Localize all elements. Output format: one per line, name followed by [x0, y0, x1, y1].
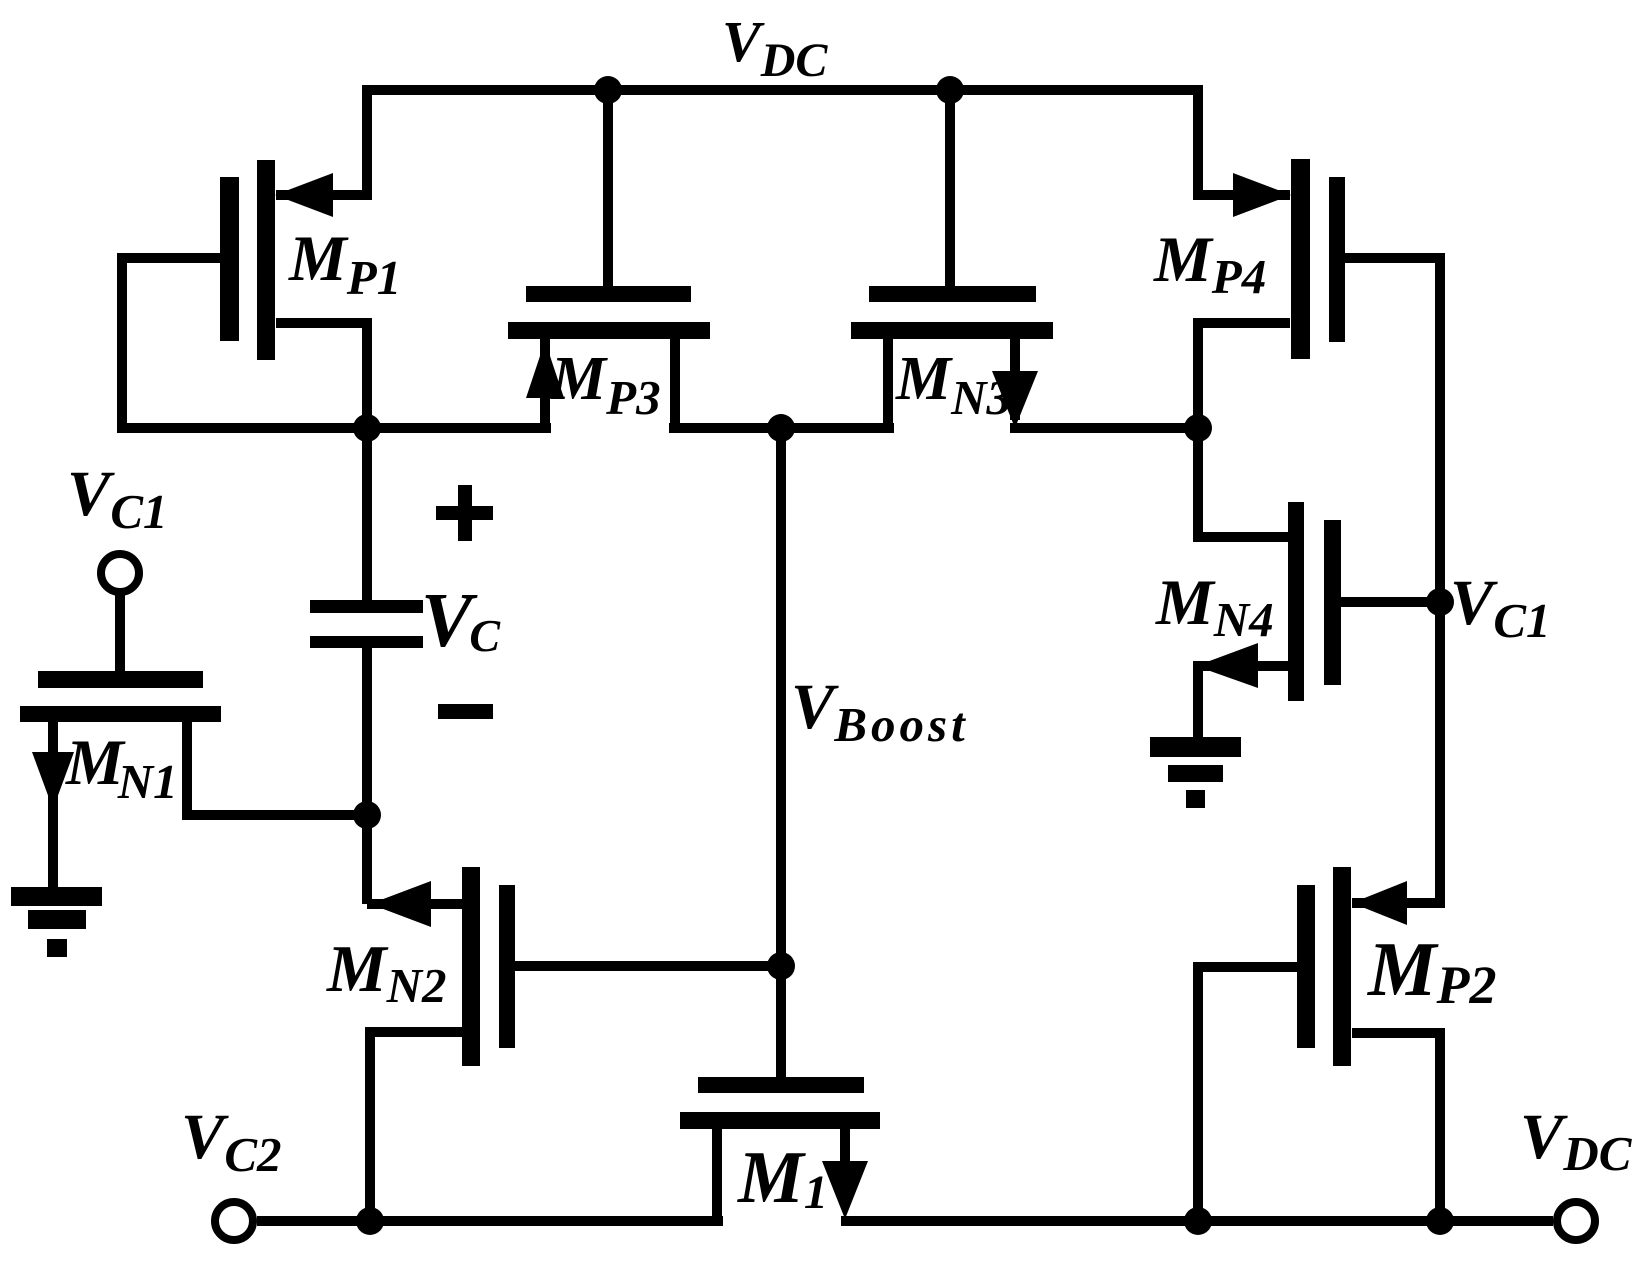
- node top rail / MN3 gate junction: [936, 76, 964, 104]
- wire mid bus right segment: [1010, 423, 1198, 433]
- node MP2 gate / rail junction: [1184, 1207, 1212, 1235]
- transistor M1 (NMOS, gate up): [680, 1077, 880, 1221]
- label MP3: [550, 345, 661, 425]
- ground (below MN4): [1150, 737, 1241, 808]
- transistor MN2 (NMOS): [367, 815, 781, 1221]
- label MN3: [895, 345, 1011, 425]
- terminal VDC (bottom right port): [1557, 1202, 1595, 1240]
- label MP2: [1366, 926, 1496, 1015]
- wire MP4 gate to MP2 source (VC1 net): [1435, 253, 1445, 908]
- node MP2 drain / rail junction: [1426, 1207, 1454, 1235]
- wire net VBoost: [776, 428, 786, 1077]
- transistor MN3 (NMOS, gate up): [851, 90, 1053, 428]
- transistor MP3 (PMOS, gate up): [508, 90, 710, 428]
- capacitor C top wire: [362, 428, 372, 600]
- wire bottom rail left segment: [257, 1216, 723, 1226]
- label MN1: [65, 727, 178, 809]
- transistor MN1 (NMOS, gate up): [20, 592, 367, 888]
- polarity minus sign: [438, 704, 493, 719]
- polarity plus sign: [436, 485, 493, 541]
- node top rail / MP3 gate junction: [594, 76, 622, 104]
- label M1: [737, 1137, 828, 1219]
- terminal VC2 (input port): [215, 1202, 253, 1240]
- transistor MP1 (PMOS): [122, 160, 370, 428]
- ground (below MN1): [11, 887, 102, 957]
- wire mid bus left segment: [117, 423, 551, 433]
- label VC1 (right): [1450, 567, 1551, 648]
- label MP4: [1153, 224, 1266, 304]
- node VBoost top junction: [767, 414, 795, 442]
- capacitor C bottom wire: [362, 648, 372, 815]
- wire bottom rail right segment: [841, 1216, 1553, 1226]
- label VC (capacitor voltage): [421, 577, 501, 663]
- node MP4 drain / MN4 drain junction: [1184, 414, 1212, 442]
- node MP1 drain / capacitor top junction: [353, 414, 381, 442]
- transistor MP2 (PMOS): [1198, 867, 1440, 1221]
- label MN4: [1155, 567, 1274, 647]
- label VDC (bottom right): [1520, 1101, 1633, 1181]
- label MP1: [288, 223, 401, 305]
- label net VDC (top): [722, 9, 828, 87]
- label VC2: [181, 1101, 282, 1182]
- transistor MN4 (NMOS, mirrored): [1196, 428, 1440, 739]
- transistor MP4 (PMOS, mirrored): [1195, 159, 1440, 428]
- label VC1 (left input): [67, 458, 168, 539]
- node VBoost / MN2 gate junction: [767, 952, 795, 980]
- terminal VC1 (input port): [101, 554, 139, 592]
- wire top VDC rail: [367, 90, 1198, 200]
- node capacitor bottom / MN1 drain junction: [353, 801, 381, 829]
- node VC1 / MN4 gate junction: [1426, 588, 1454, 616]
- capacitor C plates: [310, 600, 423, 648]
- label MN2: [326, 932, 446, 1013]
- node MN2 source / rail junction: [356, 1207, 384, 1235]
- label VBoost: [791, 671, 969, 752]
- wire mid bus centre segment: [669, 423, 894, 433]
